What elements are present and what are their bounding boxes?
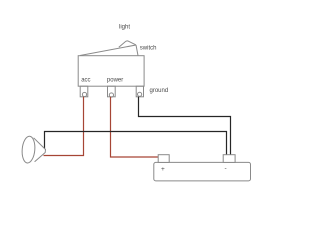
battery body: [154, 162, 251, 181]
switch rocker lever: [80, 41, 138, 56]
svg-text:-: -: [225, 165, 227, 172]
svg-text:ground: ground: [150, 88, 169, 94]
terminal power tab: [108, 86, 116, 97]
terminal acc tab: [80, 86, 88, 97]
svg-text:+: +: [161, 166, 165, 173]
svg-text:switch: switch: [140, 46, 157, 52]
svg-text:light: light: [119, 25, 130, 31]
horn speaker: [21, 136, 45, 164]
wire red acc to horn: [44, 97, 84, 156]
wire red power to battery positive: [111, 97, 160, 157]
wire black ground terminal to battery negative: [139, 97, 231, 156]
wire black horn to battery negative: [45, 132, 227, 157]
svg-text:acc: acc: [81, 77, 90, 83]
terminal ground tab: [136, 86, 143, 97]
battery positive terminal: [158, 155, 169, 163]
svg-text:power: power: [107, 78, 123, 84]
switch body SW1: [78, 56, 144, 86]
battery negative terminal: [223, 155, 235, 163]
